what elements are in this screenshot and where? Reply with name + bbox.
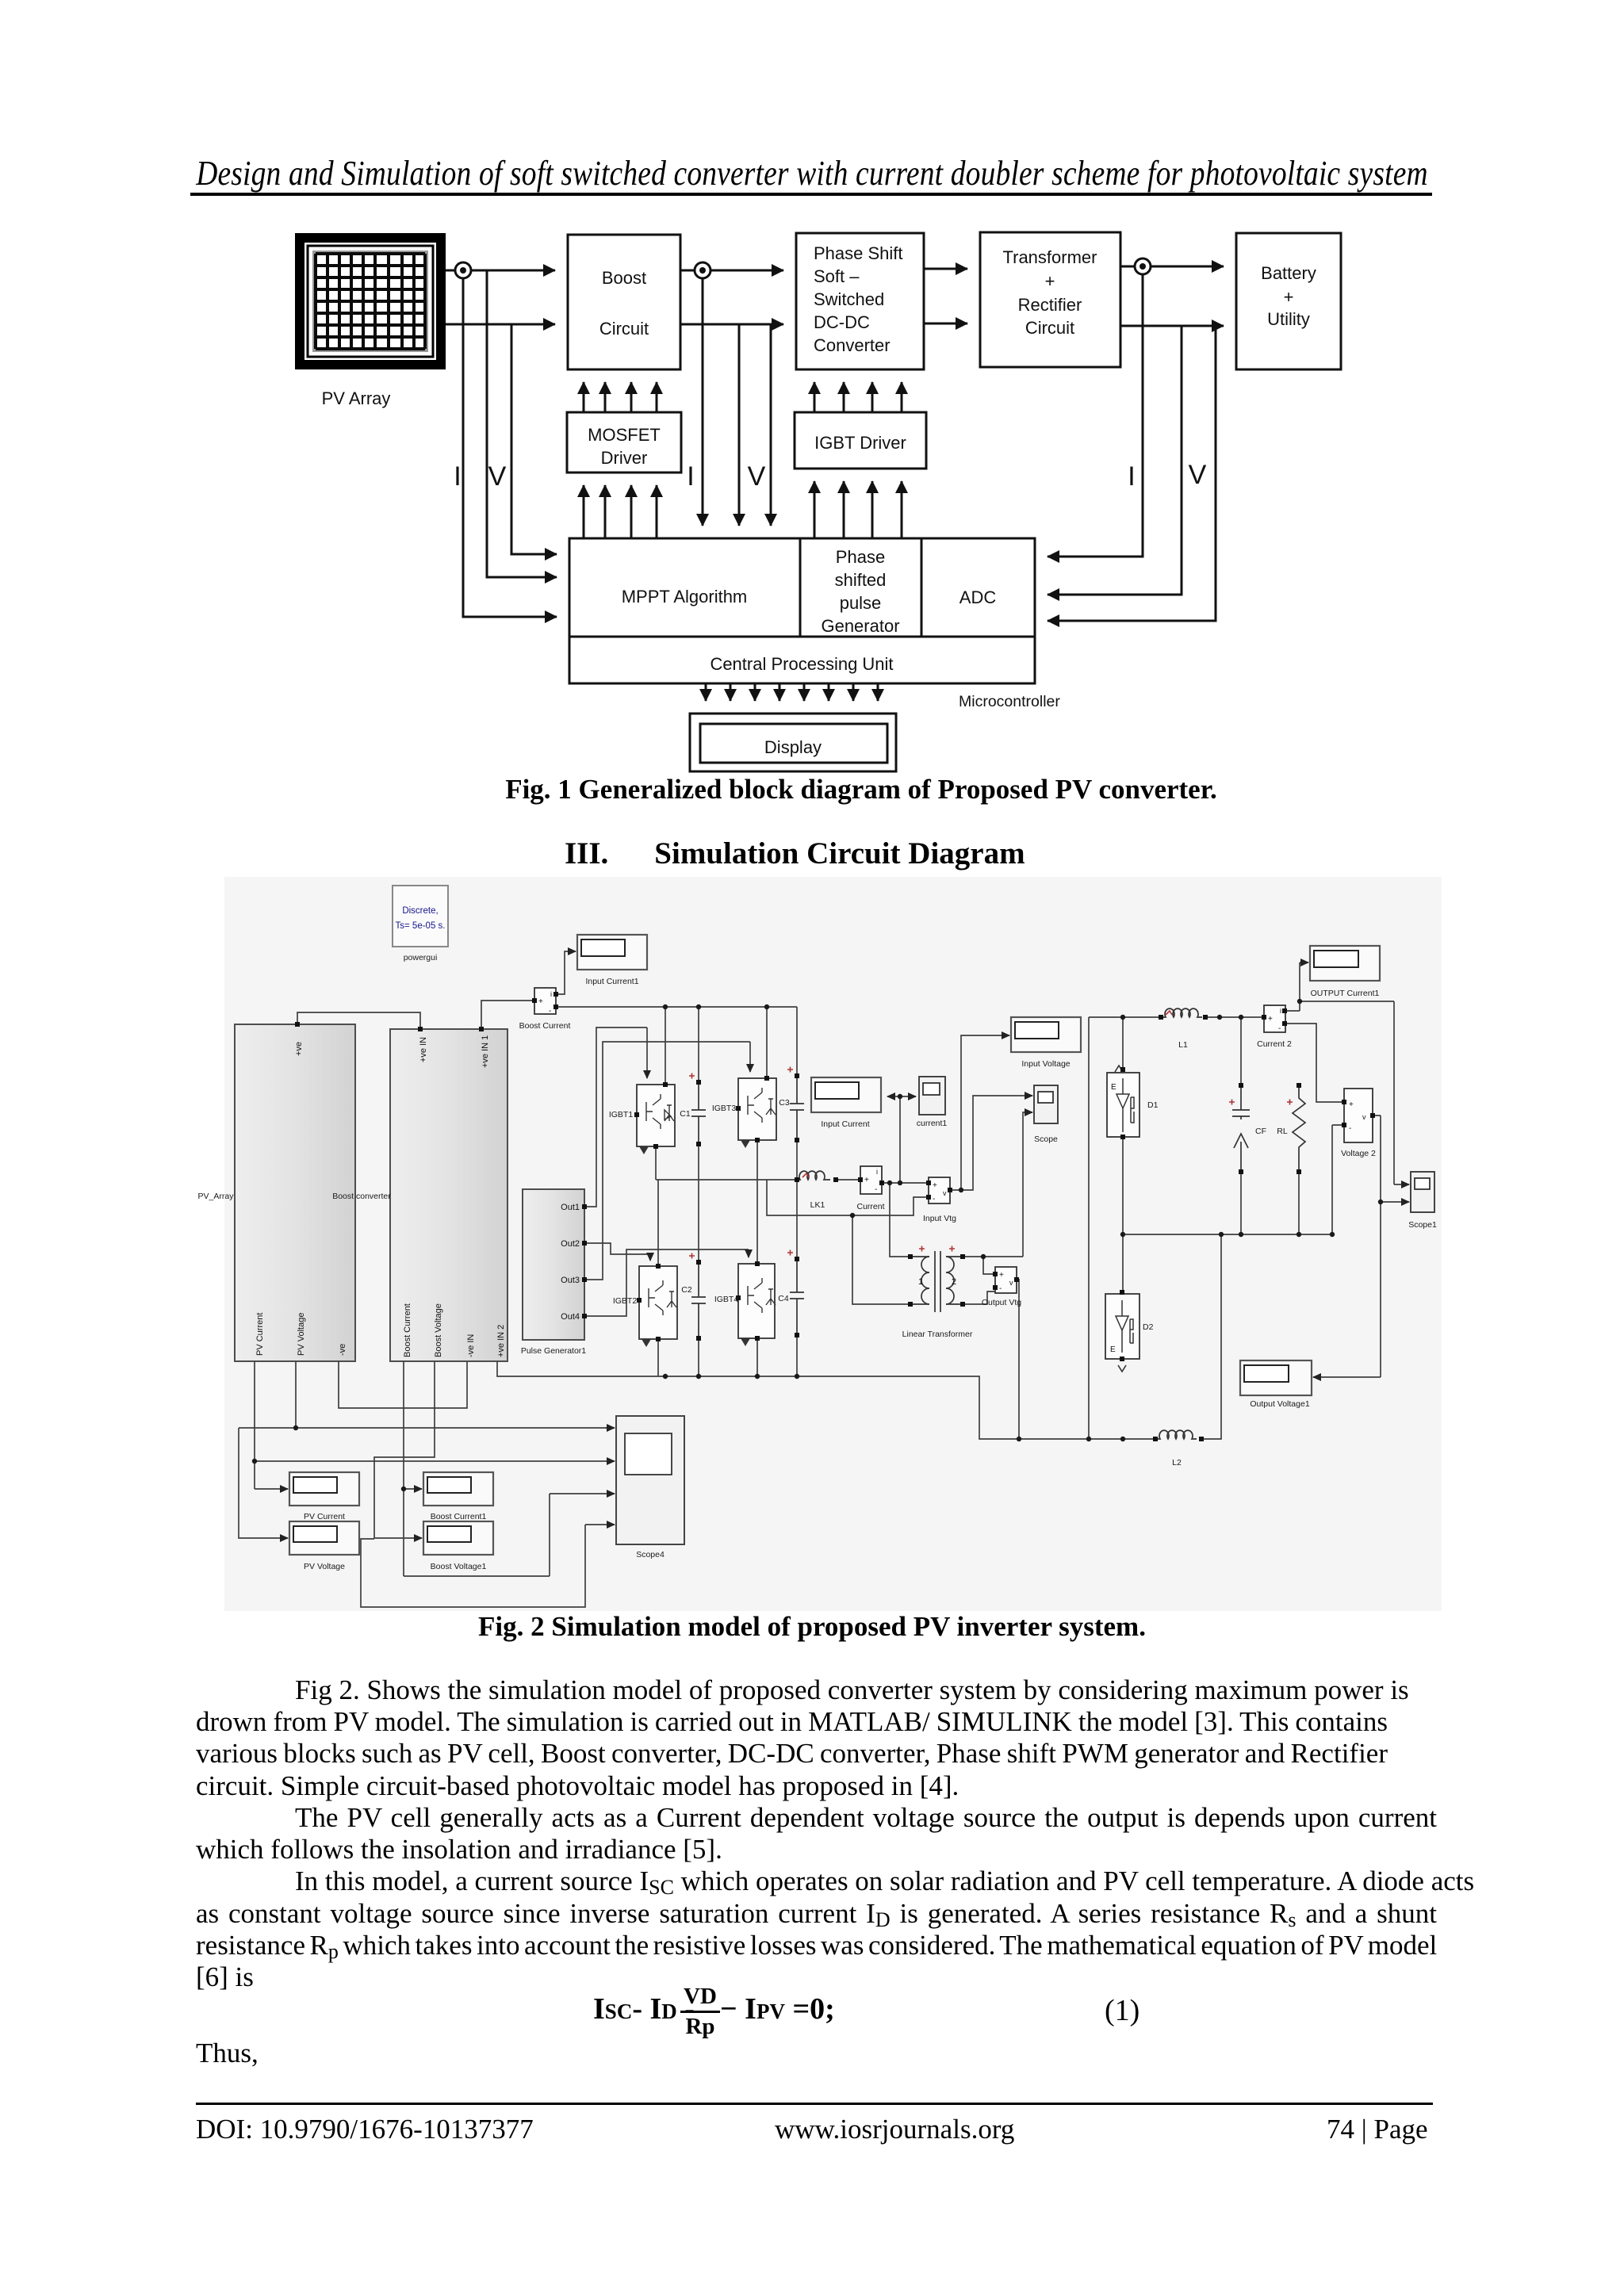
svg-text:v: v xyxy=(943,1189,947,1197)
svg-text:Discrete,: Discrete, xyxy=(402,906,438,916)
svg-text:current1: current1 xyxy=(917,1119,948,1128)
svg-text:+: + xyxy=(1349,1100,1354,1109)
svg-text:v: v xyxy=(1009,1279,1013,1287)
svg-text:Out1: Out1 xyxy=(561,1203,580,1212)
svg-text:Input Current1: Input Current1 xyxy=(585,977,638,986)
svg-text:Boost converter: Boost converter xyxy=(332,1192,391,1201)
svg-text:Current: Current xyxy=(856,1202,884,1211)
svg-text:Scope4: Scope4 xyxy=(636,1550,665,1559)
svg-text:Current 2: Current 2 xyxy=(1257,1039,1292,1049)
svg-text:PV Voltage: PV Voltage xyxy=(297,1313,306,1356)
svg-text:v: v xyxy=(1362,1113,1366,1121)
svg-text:Scope: Scope xyxy=(1034,1135,1058,1144)
svg-text:Linear Transformer: Linear Transformer xyxy=(902,1330,973,1339)
svg-text:C1: C1 xyxy=(680,1109,691,1119)
svg-text:E: E xyxy=(1111,1083,1116,1092)
svg-text:2: 2 xyxy=(952,1277,956,1287)
svg-text:Boost Voltage: Boost Voltage xyxy=(434,1303,443,1357)
svg-text:D1: D1 xyxy=(1147,1100,1159,1110)
svg-text:IGBT4: IGBT4 xyxy=(714,1295,739,1304)
svg-text:Output Vtg: Output Vtg xyxy=(982,1298,1021,1307)
svg-text:RL: RL xyxy=(1277,1127,1288,1136)
svg-text:+: + xyxy=(538,997,543,1006)
svg-text:Boost Current: Boost Current xyxy=(403,1303,412,1357)
svg-text:i: i xyxy=(1280,1007,1281,1015)
svg-text:Boost Voltage1: Boost Voltage1 xyxy=(431,1562,487,1571)
svg-text:i: i xyxy=(876,1168,878,1176)
svg-text:Out4: Out4 xyxy=(561,1312,580,1322)
svg-text:PV Current: PV Current xyxy=(255,1313,265,1356)
svg-text:-ve: -ve xyxy=(338,1344,347,1356)
svg-text:D2: D2 xyxy=(1143,1322,1154,1332)
svg-text:Input Current: Input Current xyxy=(821,1119,869,1129)
svg-text:+: + xyxy=(1268,1015,1273,1024)
svg-text:Output Voltage1: Output Voltage1 xyxy=(1250,1399,1309,1409)
svg-text:CF: CF xyxy=(1255,1127,1266,1136)
svg-text:+ve: +ve xyxy=(294,1042,304,1056)
svg-text:Out3: Out3 xyxy=(561,1276,580,1285)
svg-text:+ve IN 2: +ve IN 2 xyxy=(496,1325,506,1357)
svg-text:Ts= 5e-05 s.: Ts= 5e-05 s. xyxy=(396,921,446,931)
svg-text:C4: C4 xyxy=(778,1294,789,1303)
svg-text:PV_Array: PV_Array xyxy=(198,1192,235,1201)
svg-text:LK1: LK1 xyxy=(810,1200,825,1210)
svg-text:-: - xyxy=(1278,1024,1281,1033)
svg-text:-: - xyxy=(875,1185,877,1194)
svg-text:+: + xyxy=(999,1271,1004,1280)
svg-text:powergui: powergui xyxy=(404,953,438,962)
svg-text:Boost Current: Boost Current xyxy=(519,1021,571,1031)
svg-text:+ve IN 1: +ve IN 1 xyxy=(481,1035,490,1068)
svg-text:-: - xyxy=(1349,1124,1351,1133)
svg-text:Boost Current1: Boost Current1 xyxy=(431,1512,487,1521)
svg-text:IGBT3: IGBT3 xyxy=(712,1104,737,1113)
svg-text:-ve IN: -ve IN xyxy=(466,1334,476,1357)
svg-text:Scope1: Scope1 xyxy=(1408,1220,1437,1230)
svg-text:IGBT2: IGBT2 xyxy=(613,1296,638,1306)
svg-text:Input Vtg: Input Vtg xyxy=(923,1214,956,1223)
svg-text:-: - xyxy=(933,1195,935,1203)
svg-text:+ve IN: +ve IN xyxy=(419,1037,428,1062)
svg-text:-: - xyxy=(549,1007,551,1016)
svg-text:Input Voltage: Input Voltage xyxy=(1021,1059,1070,1069)
svg-text:PV Voltage: PV Voltage xyxy=(304,1562,345,1571)
svg-text:OUTPUT Current1: OUTPUT Current1 xyxy=(1311,989,1380,998)
svg-text:C3: C3 xyxy=(779,1098,790,1108)
svg-text:+: + xyxy=(864,1176,869,1184)
svg-text:-: - xyxy=(999,1284,1002,1293)
svg-text:1: 1 xyxy=(918,1277,923,1287)
svg-text:Pulse Generator1: Pulse Generator1 xyxy=(521,1346,586,1356)
svg-text:IGBT1: IGBT1 xyxy=(609,1110,634,1119)
svg-text:PV Current: PV Current xyxy=(304,1512,345,1521)
svg-text:Out2: Out2 xyxy=(561,1239,580,1249)
svg-text:E: E xyxy=(1110,1345,1116,1354)
svg-text:L2: L2 xyxy=(1172,1458,1182,1468)
svg-text:Voltage 2: Voltage 2 xyxy=(1341,1149,1376,1158)
svg-text:i: i xyxy=(550,990,552,998)
svg-text:+: + xyxy=(933,1181,937,1190)
svg-text:C2: C2 xyxy=(681,1285,692,1295)
svg-text:L1: L1 xyxy=(1178,1040,1188,1050)
